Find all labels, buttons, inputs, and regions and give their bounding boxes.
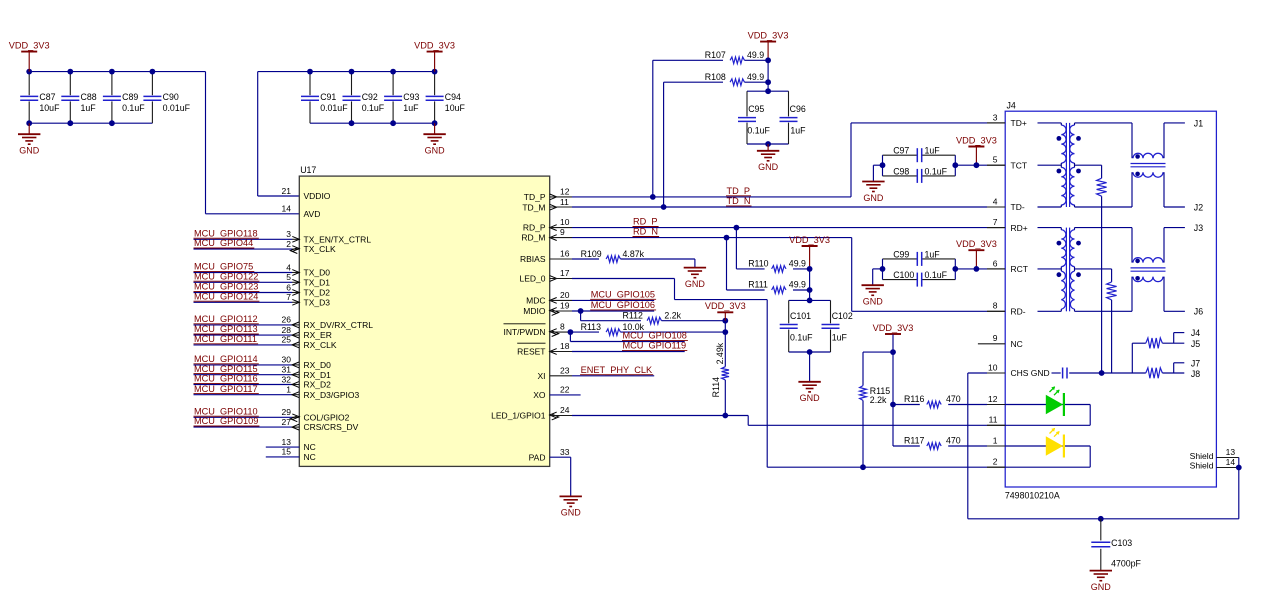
svg-text:32: 32: [282, 374, 292, 384]
svg-text:VDD_3V3: VDD_3V3: [873, 323, 914, 333]
svg-text:1uF: 1uF: [832, 332, 848, 342]
svg-text:TX_D0: TX_D0: [304, 268, 331, 278]
svg-text:0.1uF: 0.1uF: [362, 103, 385, 113]
svg-text:RD+: RD+: [1011, 223, 1028, 233]
svg-text:RBIAS: RBIAS: [520, 254, 546, 264]
svg-text:J4: J4: [1007, 101, 1016, 111]
svg-text:4.87k: 4.87k: [623, 249, 645, 259]
svg-text:J4: J4: [1191, 328, 1200, 338]
svg-text:NC: NC: [1011, 339, 1023, 349]
svg-text:MCU_GPIO105: MCU_GPIO105: [591, 290, 655, 300]
svg-text:1uF: 1uF: [925, 249, 941, 259]
svg-text:TD_P: TD_P: [727, 186, 751, 196]
svg-text:RCT: RCT: [1011, 264, 1028, 274]
svg-text:7: 7: [993, 217, 998, 227]
svg-text:J7: J7: [1191, 358, 1200, 368]
svg-text:1: 1: [993, 435, 998, 445]
svg-text:VDD_3V3: VDD_3V3: [956, 135, 997, 145]
svg-text:1uF: 1uF: [790, 125, 806, 135]
svg-text:C97: C97: [893, 146, 909, 156]
svg-text:LED_0: LED_0: [520, 274, 546, 284]
svg-text:17: 17: [560, 268, 570, 278]
svg-text:VDD_3V3: VDD_3V3: [9, 40, 50, 50]
svg-text:TCT: TCT: [1011, 160, 1028, 170]
svg-text:30: 30: [282, 355, 292, 365]
svg-text:RESET: RESET: [517, 347, 545, 357]
svg-text:RD_N: RD_N: [633, 227, 658, 237]
svg-text:LED_1/GPIO1: LED_1/GPIO1: [491, 411, 546, 421]
svg-text:10: 10: [988, 362, 998, 372]
svg-text:VDD_3V3: VDD_3V3: [748, 30, 789, 40]
svg-text:MCU_GPIO118: MCU_GPIO118: [194, 228, 258, 238]
svg-text:C98: C98: [893, 166, 909, 176]
svg-text:C93: C93: [403, 92, 419, 102]
svg-text:8: 8: [560, 322, 565, 332]
svg-text:0.1uF: 0.1uF: [925, 166, 948, 176]
svg-text:21: 21: [282, 186, 292, 196]
svg-text:4700pF: 4700pF: [1111, 558, 1141, 568]
svg-text:J3: J3: [1194, 223, 1203, 233]
svg-text:J5: J5: [1191, 339, 1200, 349]
svg-text:MCU_GPIO109: MCU_GPIO109: [194, 416, 258, 426]
svg-text:14: 14: [282, 204, 292, 214]
svg-text:J6: J6: [1194, 307, 1203, 317]
svg-text:GND: GND: [863, 193, 884, 203]
svg-text:U17: U17: [300, 165, 316, 175]
svg-text:TD_N: TD_N: [727, 196, 751, 206]
svg-text:10uF: 10uF: [445, 103, 466, 113]
svg-text:RX_DV/RX_CTRL: RX_DV/RX_CTRL: [304, 320, 374, 330]
svg-text:C102: C102: [832, 311, 853, 321]
svg-text:XO: XO: [533, 390, 546, 400]
svg-text:RX_D3/GPIO3: RX_D3/GPIO3: [304, 390, 360, 400]
svg-text:GND: GND: [19, 146, 40, 156]
svg-text:MCU_GPIO75: MCU_GPIO75: [194, 262, 253, 272]
svg-text:R112: R112: [623, 310, 643, 320]
svg-text:1: 1: [286, 385, 291, 395]
svg-text:19: 19: [560, 301, 570, 311]
svg-text:R111: R111: [748, 280, 768, 290]
svg-text:20: 20: [560, 290, 570, 300]
svg-text:TX_EN/TX_CTRL: TX_EN/TX_CTRL: [304, 234, 372, 244]
svg-text:49.9: 49.9: [789, 259, 806, 269]
svg-text:TD_P: TD_P: [524, 192, 546, 202]
svg-text:R110: R110: [748, 259, 768, 269]
svg-text:470: 470: [946, 436, 961, 446]
svg-text:2: 2: [993, 457, 998, 467]
svg-text:TD+: TD+: [1011, 118, 1027, 128]
svg-text:Shield: Shield: [1190, 451, 1214, 461]
svg-text:MCU_GPIO44: MCU_GPIO44: [194, 238, 253, 248]
svg-text:0.1uF: 0.1uF: [790, 332, 813, 342]
svg-text:49.9: 49.9: [789, 280, 806, 290]
svg-text:C90: C90: [163, 92, 179, 102]
svg-text:VDD_3V3: VDD_3V3: [414, 40, 455, 50]
svg-text:6: 6: [993, 258, 998, 268]
svg-text:15: 15: [282, 447, 292, 457]
svg-text:GND: GND: [685, 279, 706, 289]
svg-text:RD-: RD-: [1011, 307, 1026, 317]
svg-text:CRS/CRS_DV: CRS/CRS_DV: [304, 422, 359, 432]
svg-text:MDC: MDC: [526, 296, 545, 306]
svg-text:MCU_GPIO110: MCU_GPIO110: [194, 406, 258, 416]
svg-text:R116: R116: [904, 394, 924, 404]
svg-text:TX_D2: TX_D2: [304, 288, 331, 298]
svg-text:C89: C89: [122, 92, 138, 102]
svg-text:GND: GND: [425, 146, 446, 156]
svg-text:31: 31: [282, 365, 292, 375]
svg-text:2: 2: [286, 239, 291, 249]
svg-text:6: 6: [286, 282, 291, 292]
svg-text:TX_D1: TX_D1: [304, 277, 331, 287]
svg-text:0.1uF: 0.1uF: [747, 125, 770, 135]
svg-text:MDIO: MDIO: [523, 306, 546, 316]
svg-text:2.2k: 2.2k: [870, 395, 887, 405]
svg-text:INT/PWDN: INT/PWDN: [503, 327, 545, 337]
svg-text:RX_CLK: RX_CLK: [304, 340, 337, 350]
svg-text:C91: C91: [320, 92, 336, 102]
svg-text:11: 11: [989, 415, 998, 425]
svg-text:MCU_GPIO113: MCU_GPIO113: [194, 324, 258, 334]
svg-text:RD_P: RD_P: [633, 217, 658, 227]
svg-text:MCU_GPIO122: MCU_GPIO122: [194, 271, 258, 281]
svg-text:MCU_GPIO119: MCU_GPIO119: [623, 341, 687, 351]
svg-text:5: 5: [286, 272, 291, 282]
svg-text:1uF: 1uF: [403, 103, 419, 113]
svg-text:MCU_GPIO111: MCU_GPIO111: [194, 334, 257, 344]
svg-text:MCU_GPIO117: MCU_GPIO117: [194, 384, 258, 394]
svg-text:C99: C99: [893, 249, 909, 259]
svg-text:0.01uF: 0.01uF: [163, 103, 191, 113]
svg-text:R114: R114: [711, 377, 721, 397]
svg-text:R108: R108: [705, 72, 726, 82]
svg-text:2.2k: 2.2k: [664, 310, 681, 320]
svg-text:25: 25: [282, 335, 292, 345]
svg-text:13: 13: [1226, 447, 1236, 457]
svg-text:ENET_PHY_CLK: ENET_PHY_CLK: [581, 365, 653, 375]
svg-text:28: 28: [282, 325, 292, 335]
svg-text:RX_D1: RX_D1: [304, 370, 332, 380]
svg-text:R117: R117: [904, 436, 924, 446]
svg-text:4: 4: [286, 262, 291, 272]
svg-text:VDD_3V3: VDD_3V3: [789, 235, 830, 245]
svg-text:0.01uF: 0.01uF: [320, 103, 348, 113]
svg-text:12: 12: [988, 394, 998, 404]
svg-text:27: 27: [282, 417, 292, 427]
svg-text:MCU_GPIO116: MCU_GPIO116: [194, 374, 258, 384]
svg-text:1uF: 1uF: [81, 103, 97, 113]
svg-text:C87: C87: [39, 92, 55, 102]
svg-text:C96: C96: [790, 104, 806, 114]
svg-text:RX_ER: RX_ER: [304, 330, 332, 340]
svg-text:0.1uF: 0.1uF: [925, 270, 948, 280]
svg-text:5: 5: [993, 155, 998, 165]
svg-text:VDD_3V3: VDD_3V3: [705, 301, 746, 311]
svg-text:VDD_3V3: VDD_3V3: [956, 239, 997, 249]
svg-text:C100: C100: [893, 270, 914, 280]
svg-text:COL/GPIO2: COL/GPIO2: [304, 412, 350, 422]
svg-text:GND: GND: [561, 508, 582, 518]
svg-text:7498010210A: 7498010210A: [1005, 490, 1060, 500]
svg-text:C92: C92: [362, 92, 378, 102]
svg-text:R107: R107: [705, 50, 726, 60]
svg-text:J2: J2: [1194, 202, 1203, 212]
svg-text:3: 3: [286, 229, 291, 239]
svg-text:33: 33: [560, 447, 570, 457]
svg-text:C88: C88: [81, 92, 97, 102]
svg-text:8: 8: [993, 301, 998, 311]
svg-text:MCU_GPIO112: MCU_GPIO112: [194, 314, 258, 324]
svg-text:R113: R113: [581, 322, 601, 332]
svg-text:MCU_GPIO106: MCU_GPIO106: [591, 300, 655, 310]
svg-text:49.9: 49.9: [747, 72, 764, 82]
svg-text:TD-: TD-: [1011, 202, 1025, 212]
svg-text:R109: R109: [581, 249, 602, 259]
svg-text:16: 16: [560, 249, 570, 259]
svg-text:RX_D0: RX_D0: [304, 360, 332, 370]
svg-text:GND: GND: [863, 297, 884, 307]
svg-text:24: 24: [560, 405, 570, 415]
svg-text:3: 3: [993, 112, 998, 122]
svg-text:RD_M: RD_M: [521, 233, 545, 243]
svg-text:CHS GND: CHS GND: [1011, 368, 1050, 378]
svg-text:11: 11: [560, 197, 569, 207]
svg-text:10uF: 10uF: [39, 103, 60, 113]
svg-text:NC: NC: [304, 452, 316, 462]
svg-text:Shield: Shield: [1190, 461, 1214, 471]
svg-text:AVD: AVD: [304, 209, 321, 219]
svg-text:J8: J8: [1191, 369, 1200, 379]
svg-text:MCU_GPIO114: MCU_GPIO114: [194, 354, 258, 364]
svg-text:TX_CLK: TX_CLK: [304, 244, 336, 254]
svg-text:C95: C95: [748, 104, 764, 114]
svg-text:MCU_GPIO124: MCU_GPIO124: [194, 291, 258, 301]
svg-text:J1: J1: [1194, 118, 1203, 128]
svg-text:29: 29: [282, 407, 292, 417]
svg-text:MCU_GPIO108: MCU_GPIO108: [623, 331, 687, 341]
svg-text:26: 26: [282, 315, 292, 325]
svg-text:RD_P: RD_P: [523, 223, 546, 233]
svg-text:7: 7: [286, 292, 291, 302]
svg-text:GND: GND: [758, 162, 779, 172]
svg-text:XI: XI: [537, 371, 545, 381]
svg-text:2.49k: 2.49k: [715, 342, 725, 364]
svg-text:VDDIO: VDDIO: [304, 191, 331, 201]
svg-text:0.1uF: 0.1uF: [122, 103, 145, 113]
svg-text:TX_D3: TX_D3: [304, 297, 331, 307]
svg-text:C94: C94: [445, 92, 461, 102]
svg-text:MCU_GPIO123: MCU_GPIO123: [194, 282, 258, 292]
svg-text:13: 13: [282, 437, 292, 447]
svg-text:4: 4: [993, 196, 998, 206]
svg-text:GND: GND: [800, 393, 821, 403]
svg-text:12: 12: [560, 187, 570, 197]
svg-text:14: 14: [1226, 457, 1236, 467]
svg-text:9: 9: [560, 227, 565, 237]
svg-text:NC: NC: [304, 442, 316, 452]
svg-text:9: 9: [993, 333, 998, 343]
svg-text:GND: GND: [1091, 582, 1112, 592]
svg-text:C101: C101: [790, 311, 811, 321]
svg-text:PAD: PAD: [529, 452, 546, 462]
svg-text:MCU_GPIO115: MCU_GPIO115: [194, 364, 258, 374]
svg-text:RX_D2: RX_D2: [304, 380, 332, 390]
svg-text:49.9: 49.9: [747, 50, 764, 60]
svg-text:1uF: 1uF: [925, 146, 941, 156]
svg-text:22: 22: [560, 385, 570, 395]
svg-text:TD_M: TD_M: [522, 202, 545, 212]
svg-text:C103: C103: [1111, 538, 1132, 548]
svg-text:23: 23: [560, 365, 570, 375]
svg-text:10: 10: [560, 217, 570, 227]
svg-text:18: 18: [560, 341, 570, 351]
svg-text:470: 470: [946, 394, 961, 404]
